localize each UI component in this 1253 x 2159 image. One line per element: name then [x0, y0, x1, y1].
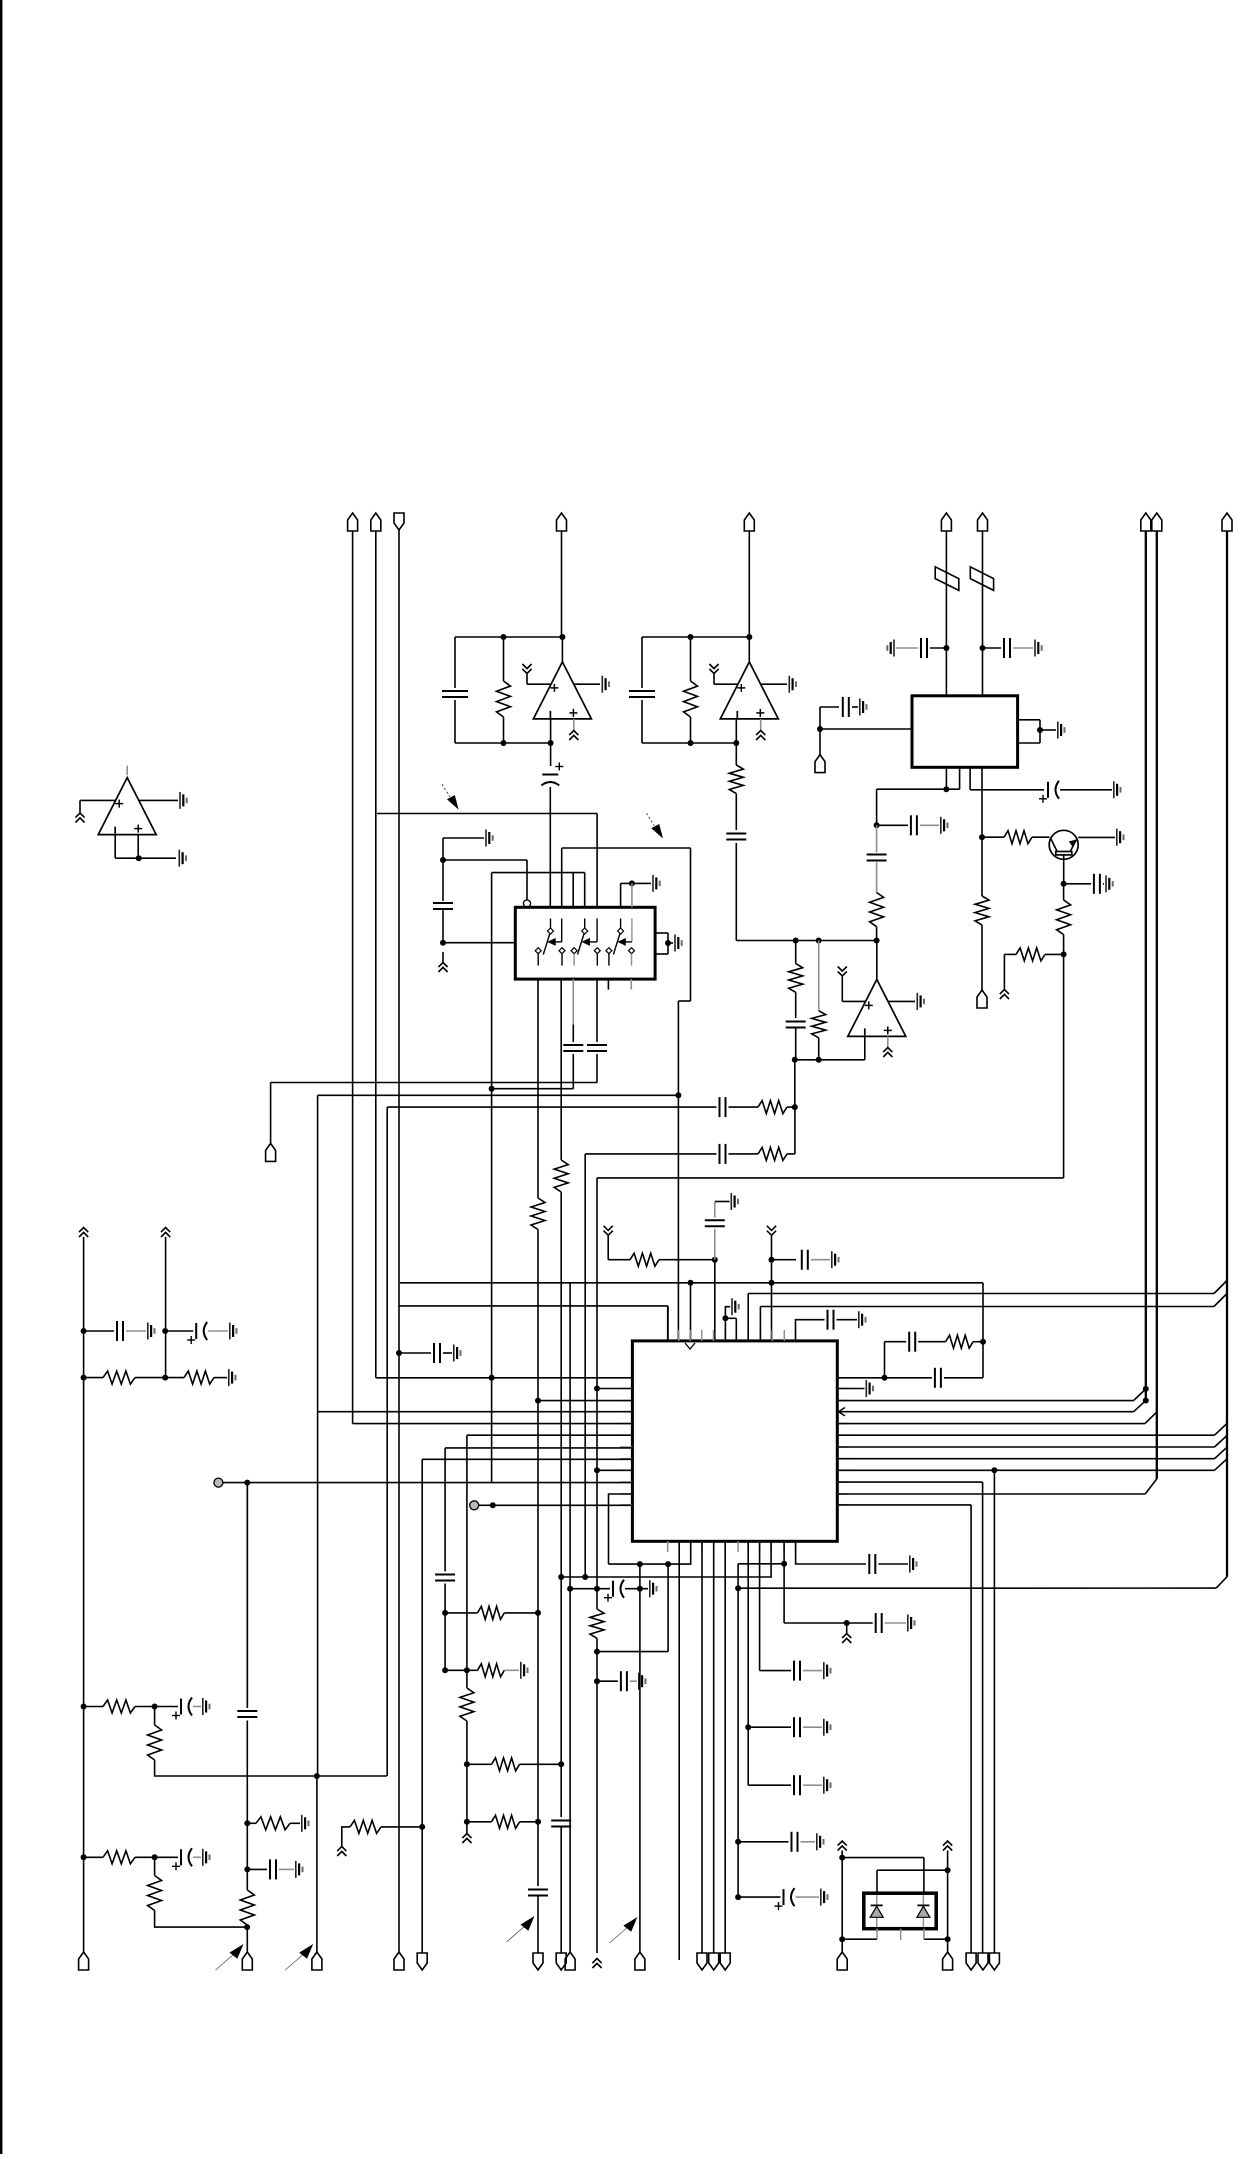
wire U1A out [574, 683, 601, 685]
wire [837, 1319, 858, 1321]
signal ground [732, 1298, 739, 1315]
wire [1063, 935, 1065, 955]
resistor R13 [630, 1253, 659, 1266]
wire [981, 767, 983, 837]
wire long [466, 1435, 468, 1670]
wire IC1 R12 [837, 1504, 971, 1506]
signal ground [908, 1615, 915, 1632]
junction [874, 822, 880, 828]
wire [1103, 883, 1104, 885]
IC1 right pin stub [837, 1446, 849, 1448]
junction [746, 634, 752, 640]
junction [594, 1649, 600, 1655]
connector J24 [709, 1953, 719, 1970]
signal ground [229, 1369, 236, 1386]
wire [659, 1259, 715, 1261]
connector J2 symbol [371, 513, 381, 531]
signal ground [148, 1323, 155, 1340]
connector J27 [943, 1952, 953, 1970]
resistor R24 [478, 1606, 505, 1619]
chassis ground [1000, 990, 1009, 1000]
resistor R18 [148, 1725, 162, 1760]
junction [464, 1819, 470, 1825]
wire U1B fb bottom [642, 742, 736, 744]
wire Q1 emitter [1063, 855, 1065, 884]
wire long [569, 1283, 571, 1953]
wire [526, 674, 528, 684]
annotation arrow [609, 1917, 637, 1943]
junction [980, 645, 986, 651]
junction [688, 1280, 694, 1286]
switch contact pin [535, 948, 541, 966]
wire [208, 1330, 228, 1332]
wire net H6 [597, 1177, 1064, 1179]
wire net LA [561, 1541, 771, 1577]
wire [520, 1763, 562, 1765]
wire U1B +in [714, 683, 738, 685]
capacitor C24 [869, 1554, 875, 1574]
wire diagonal [1215, 1459, 1228, 1471]
resistor R10 [812, 1011, 826, 1038]
signal ground [230, 1323, 237, 1340]
capacitor C38 [237, 1711, 257, 1717]
wire [923, 1858, 925, 1894]
wire [467, 1669, 478, 1671]
wire [876, 1870, 878, 1893]
resistor R19 [103, 1851, 135, 1864]
wire [982, 1283, 984, 1378]
signal ground [1058, 722, 1065, 739]
wire J2 stem [375, 531, 377, 1378]
wire [796, 1896, 820, 1898]
junction [535, 1819, 541, 1825]
wire [772, 1259, 797, 1261]
junction [440, 857, 446, 863]
resistor R11 [758, 1101, 787, 1114]
wire [597, 1680, 618, 1682]
bus wire V2 [1156, 531, 1158, 1479]
switch contact pin [606, 948, 612, 966]
wire U1A +in [527, 683, 551, 685]
wire [655, 953, 668, 955]
wire [596, 1638, 598, 1953]
junction [735, 1585, 741, 1591]
wire [223, 1482, 247, 1484]
chassis ground [438, 963, 447, 973]
wire IC1 R9 [837, 1469, 1214, 1471]
capacitor C37 polarized [172, 1848, 192, 1870]
connector J12 [977, 990, 987, 1008]
IC IC1 [632, 1341, 837, 1541]
wire [729, 1153, 759, 1155]
switch contact pin [571, 948, 577, 966]
connector J3 symbol [394, 513, 404, 530]
wire [573, 719, 575, 730]
wire [795, 941, 797, 964]
wire [713, 674, 715, 684]
wire [667, 1564, 669, 1652]
op-amp U1C symbol [98, 778, 156, 835]
resistor R28 [492, 1815, 520, 1828]
junction [781, 1561, 787, 1567]
wire U1D +in [842, 1000, 865, 1002]
wire [641, 700, 643, 743]
junction [675, 1092, 681, 1098]
wire [803, 1784, 822, 1786]
IC1 left pin stub [620, 1469, 632, 1471]
wire [193, 1706, 201, 1708]
signal ground [296, 1861, 303, 1878]
IC1 bottom pin stub [667, 1541, 669, 1552]
wire net C [492, 872, 585, 874]
wire [846, 1623, 848, 1633]
wire [896, 647, 918, 649]
junction [548, 740, 554, 746]
IC1 bottom pin stub [783, 1541, 785, 1552]
junction [152, 1854, 158, 1860]
capacitor C4 [726, 834, 746, 840]
wire [715, 1201, 730, 1203]
resistor R25 [478, 1664, 505, 1677]
wire [842, 1857, 924, 1859]
junction [991, 1467, 997, 1473]
wire [135, 1856, 155, 1858]
IC1 top pin stub [795, 1330, 797, 1341]
IC U3 [912, 696, 1018, 768]
wire long [701, 1541, 703, 1953]
connector J22 [635, 1952, 645, 1970]
page border line [0, 0, 2, 2154]
wire diagonal [1214, 1294, 1227, 1307]
capacitor C23 [909, 1332, 915, 1352]
junction [244, 1866, 250, 1872]
wire U1C out [139, 799, 178, 801]
connector J14 [79, 1952, 89, 1970]
wire [795, 1059, 865, 1061]
wire [847, 1622, 873, 1624]
wire [876, 825, 878, 852]
wire [596, 814, 598, 908]
wire [596, 979, 598, 1042]
resistor R15 [103, 1371, 135, 1384]
wire [443, 837, 484, 839]
resistor R12 [758, 1147, 787, 1160]
wire [735, 1318, 737, 1341]
U4 bottom stub [900, 1929, 902, 1940]
wire net H2 [318, 1094, 679, 1096]
IC1 top pin stub [759, 1330, 761, 1341]
signal ground [1114, 781, 1121, 798]
wire [970, 789, 1044, 791]
wire [445, 1669, 467, 1671]
junction [162, 1328, 168, 1334]
resistor R23 [350, 1820, 381, 1833]
junction [637, 1561, 643, 1567]
IC1 right pin stub [837, 1504, 849, 1506]
IC1 bottom pin stub [759, 1541, 761, 1552]
wire [442, 838, 444, 860]
wire [803, 1726, 822, 1728]
junction [769, 1280, 775, 1286]
bus wire V1 [1145, 531, 1147, 1401]
junction [979, 834, 985, 840]
signal ground [824, 1662, 831, 1679]
wire [246, 1925, 248, 1952]
wire IC1 R1 [944, 1377, 983, 1379]
wire [884, 1342, 886, 1378]
capacitor C19 [802, 1250, 808, 1270]
wire IC1 L1 [376, 1377, 633, 1379]
wire U1A fb bottom [455, 742, 551, 744]
wire U1C +in [80, 799, 116, 801]
wire [135, 1706, 155, 1708]
junction [535, 1398, 541, 1404]
capacitor C2 polarized [541, 763, 563, 786]
wire [381, 1826, 422, 1828]
connector J26 [837, 1952, 847, 1970]
wire [1045, 953, 1064, 955]
wire net H7 [400, 1282, 983, 1284]
annotation arrow [507, 1916, 535, 1942]
IC1 top pin stub [689, 1330, 691, 1341]
connector J20 [556, 1953, 566, 1970]
junction [874, 938, 880, 944]
wire [445, 1612, 477, 1614]
wire U2 pin down [537, 979, 539, 1198]
IC1 top pin stub [667, 1330, 669, 1341]
op-amp U1D [848, 979, 906, 1036]
wire [126, 1330, 146, 1332]
wire [84, 1706, 103, 1708]
wire IC1 R1 [837, 1377, 932, 1379]
wire [876, 861, 878, 893]
wire rail B [165, 1237, 167, 1378]
junction [980, 1339, 986, 1345]
capacitor C33 [528, 1890, 548, 1896]
wire net H8 [399, 1305, 668, 1307]
resistor R1 [497, 681, 511, 717]
wire long [639, 1564, 641, 1953]
jumper W2 [970, 567, 993, 591]
wire long [993, 1470, 995, 1953]
IC1 top pin stub [678, 1330, 680, 1341]
capacitor C22 [935, 1368, 941, 1388]
U2 inhibit pin [523, 900, 530, 907]
junction [501, 740, 507, 746]
wire [1018, 742, 1040, 744]
wire [924, 1938, 948, 1940]
wire [818, 941, 820, 1011]
wire [841, 1851, 843, 1940]
signal ground [486, 830, 493, 847]
wire [247, 1822, 256, 1824]
signal ground [789, 676, 796, 693]
chassis ground [79, 1228, 88, 1238]
wire diagonal [1145, 1479, 1157, 1494]
IC1 pin1 mark [685, 1343, 695, 1349]
wire [316, 1776, 318, 1953]
capacitor C27 [794, 1717, 800, 1737]
IC1 left pin stub [620, 1493, 632, 1495]
capacitor C35 polarized [187, 1322, 207, 1344]
chassis ground [161, 1228, 170, 1238]
wire [503, 637, 505, 681]
wire [819, 729, 821, 755]
resistor R22 [240, 1890, 254, 1925]
junction [792, 1057, 798, 1063]
wire [1018, 719, 1040, 721]
IC1 right pin stub [837, 1411, 849, 1413]
junction [637, 1586, 643, 1592]
wire J4 stem [561, 531, 563, 637]
IC1 top pin stub [713, 1330, 715, 1341]
wire node N1 [736, 940, 876, 942]
signal ground [887, 640, 894, 657]
junction [817, 726, 823, 732]
signal ground [180, 792, 187, 809]
wire [1013, 647, 1033, 649]
diode array U4 [864, 1893, 936, 1929]
IC1 bottom pin stub [678, 1541, 680, 1552]
wire [819, 707, 821, 729]
wire [155, 1760, 387, 1776]
wire [738, 1541, 784, 1564]
resistor R2 [684, 681, 698, 717]
wire U1D apex [876, 941, 878, 980]
switch S3 [613, 919, 632, 955]
IC1 left pin stub [620, 1458, 632, 1460]
wire [467, 1821, 492, 1823]
wire [572, 979, 574, 1024]
signal ground [859, 1311, 866, 1328]
wire [918, 1341, 945, 1343]
junction [688, 740, 694, 746]
wire [735, 794, 737, 830]
junction [244, 1820, 250, 1826]
wire long [491, 873, 493, 1483]
connector J6 symbol [941, 513, 951, 531]
wire [84, 1856, 103, 1858]
junction [489, 1086, 495, 1092]
IC1 left pin stub [620, 1411, 632, 1413]
wire [137, 835, 139, 859]
wire [690, 717, 692, 743]
IC1 bottom pin stub [737, 1541, 739, 1552]
wire [803, 1670, 822, 1672]
diode D2 [917, 1895, 930, 1927]
wire [631, 883, 633, 907]
wire [165, 1377, 184, 1379]
capacitor C16 [720, 1097, 726, 1117]
resistor R7 [1016, 948, 1045, 961]
junction [712, 1257, 718, 1263]
signal ground [866, 1380, 873, 1397]
annotation arrow [285, 1944, 313, 1970]
wire [246, 1483, 248, 1708]
resistor R17 [103, 1700, 135, 1713]
wire [154, 1707, 156, 1726]
connector J19 [533, 1953, 543, 1970]
connector J9 symbol [1152, 513, 1162, 531]
junction [722, 1315, 728, 1321]
wire rail A [83, 1237, 85, 1952]
wire stub [126, 766, 128, 776]
wire [714, 1260, 716, 1341]
wire [279, 1868, 294, 1870]
wire [503, 717, 505, 743]
wire [771, 1236, 773, 1341]
junction [535, 1610, 541, 1616]
chassis ground [337, 1847, 346, 1857]
jumper W1 [935, 567, 959, 591]
connector J30 [989, 1953, 999, 1970]
junction [567, 1586, 573, 1592]
wire [560, 1827, 562, 1953]
connector J10 symbol [1222, 513, 1232, 531]
wire [760, 1670, 791, 1672]
wire to U2 pin [443, 942, 515, 944]
junction [489, 1375, 495, 1381]
capacitor C36 polarized [172, 1698, 192, 1720]
junction [943, 645, 949, 651]
signal ground [653, 875, 660, 892]
wire [945, 767, 947, 789]
capacitor C39 [270, 1859, 276, 1879]
chassis ground [709, 664, 718, 674]
chassis ground [943, 1841, 952, 1851]
wire diagonal [1134, 1389, 1146, 1401]
junction [882, 1375, 888, 1381]
junction [442, 1610, 448, 1616]
wire [290, 1822, 300, 1824]
IC1 top pin stub [783, 1330, 785, 1341]
wire [760, 719, 762, 730]
wire [947, 1939, 949, 1953]
IC1 right pin stub [837, 1400, 849, 1402]
chassis ground [462, 1834, 471, 1844]
capacitor C7 [587, 1045, 607, 1051]
wire [735, 843, 737, 941]
wire [165, 1330, 193, 1332]
resistor R29 [531, 1198, 545, 1230]
junction [844, 1620, 850, 1626]
IC1 bottom pin stub [701, 1541, 703, 1552]
wire J6 stem [945, 531, 947, 696]
signal ground [824, 1719, 831, 1736]
wire [442, 860, 444, 901]
wire [818, 1038, 820, 1060]
wire diagonal [1216, 1577, 1227, 1588]
wire [114, 835, 116, 859]
IC1 top pin stub [701, 1330, 703, 1341]
connector J11 [815, 755, 825, 773]
transistor Q1 [1049, 830, 1078, 859]
wire [729, 1106, 759, 1108]
signal ground [1035, 640, 1042, 657]
wire IC1 R8 [837, 1458, 1214, 1460]
connector J15 [242, 1952, 252, 1970]
wire [467, 1763, 492, 1765]
wire net H1 [271, 1082, 597, 1084]
wire [737, 1564, 739, 1589]
wire [725, 1307, 730, 1319]
IC1 pin arrow [839, 1408, 846, 1416]
signal ground [179, 850, 186, 867]
capacitor C20 [434, 1343, 440, 1363]
IC1 left pin stub [620, 1423, 632, 1425]
wire stub [630, 979, 632, 989]
wire net H10 [570, 1588, 610, 1590]
